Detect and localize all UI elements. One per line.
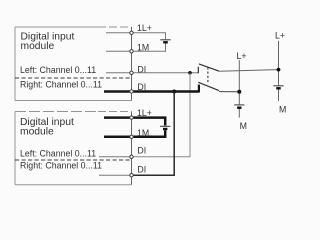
svg-text:1L+: 1L+ — [137, 108, 152, 118]
wire: branch B vertical — [278, 41, 280, 86]
wire W2: node B down to U2 DI right — [133, 92, 174, 176]
node A junction dot — [188, 71, 192, 75]
battery G1 plates — [160, 39, 170, 41]
svg-text:1L+: 1L+ — [137, 23, 152, 33]
svg-text:L+: L+ — [237, 51, 247, 61]
wire: G2 to U2 1M (bold) — [132, 130, 166, 137]
svg-text:DI: DI — [137, 146, 146, 156]
svg-text:module: module — [20, 126, 54, 137]
wire: branch A vertical — [238, 60, 240, 105]
node B junction dot (bold wire) — [172, 90, 176, 94]
svg-text:M: M — [279, 104, 286, 114]
svg-text:module: module — [21, 41, 55, 52]
terminal circles U2 — [130, 116, 133, 177]
module box U1 (upper digital input module) — [15, 27, 132, 101]
svg-text:Left: Channel 0...11: Left: Channel 0...11 — [20, 148, 96, 158]
divider dashed line U2 left/right channels — [15, 159, 132, 161]
wire W1: node A down to U2 DI left — [133, 73, 190, 157]
wire: G1 to U1 1M — [132, 44, 166, 52]
svg-text:1M: 1M — [137, 43, 149, 53]
battery G4 plates (branch B) — [273, 85, 283, 87]
wire: U2 DI left stub — [99, 156, 132, 158]
mechanical coupling dashed link S1-S2 — [207, 67, 209, 84]
wire: U2 1L+ bold run to supply G2 — [132, 118, 166, 126]
svg-text:L+: L+ — [275, 31, 285, 41]
node C junction dot branch A — [237, 90, 241, 94]
battery G3 plates (branch A) — [234, 104, 244, 106]
wire: U1 DI right stub (bold) — [104, 90, 132, 93]
svg-text:1M: 1M — [137, 128, 149, 138]
wire: S2 to L+ branch A — [219, 91, 239, 93]
svg-text:Right: Channel 0...11: Right: Channel 0...11 — [20, 160, 102, 170]
terminal circles U1 — [130, 31, 133, 93]
switch S1 blade — [199, 64, 219, 71]
node D junction dot branch B — [277, 68, 281, 72]
svg-text:Left: Channel 0...11: Left: Channel 0...11 — [20, 65, 96, 75]
wire: U1 DI right bold run to switch S2 — [132, 90, 199, 93]
svg-text:DI: DI — [137, 164, 146, 174]
battery G2 plates — [160, 125, 170, 127]
switch S2 blade — [198, 82, 219, 90]
wire: U1 1M stub — [106, 50, 132, 52]
wire: U1 DI left stub — [106, 72, 132, 74]
module box U2 (lower digital input module) — [15, 112, 132, 185]
svg-text:M: M — [240, 121, 247, 131]
wire: U2 1L+ stub (bold) — [104, 116, 132, 119]
wire: U2 DI right stub — [99, 174, 132, 176]
wire: U1 DI left to switch S1 — [132, 72, 199, 74]
wire: U1 1L+ to supply G1 — [132, 33, 166, 39]
wire: U2 1M stub (bold) — [104, 136, 132, 139]
switch S1 fixed contact — [197, 67, 199, 74]
switch S2 fixed contact (bold) — [198, 85, 200, 93]
divider dashed line U1 left/right channels — [15, 77, 132, 79]
wire: S1 to L+ branch B — [219, 70, 278, 72]
wire: U1 1L+ stub — [106, 32, 132, 34]
svg-text:Right: Channel 0...11: Right: Channel 0...11 — [20, 79, 102, 89]
